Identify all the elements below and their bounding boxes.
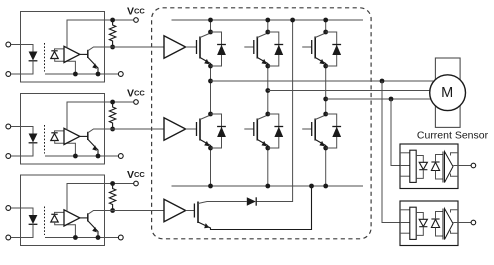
amplifier U1 bbox=[64, 46, 80, 62]
pins right CS2 bbox=[451, 210, 459, 213]
wire diode branch Q4 bbox=[211, 114, 222, 148]
wire photodiode cathode to amp bbox=[55, 131, 65, 133]
photodiode U1 bbox=[51, 50, 57, 52]
node common photodiode bbox=[73, 154, 78, 159]
isolation barrier bbox=[44, 125, 46, 154]
svg-text:VCC: VCC bbox=[127, 88, 145, 100]
photodiode U2 bbox=[51, 132, 57, 134]
node N rail col1 bbox=[208, 184, 213, 189]
pins left CS1 bbox=[400, 152, 410, 154]
resistor R1 bbox=[109, 20, 115, 47]
wire diode branch Q1 bbox=[211, 32, 222, 66]
node emitter Q6 bbox=[323, 146, 328, 151]
optocoupler U1 box bbox=[21, 12, 105, 83]
wire emitter Q5 to N rail bbox=[267, 148, 269, 186]
emitter Q7 with arrow bbox=[198, 186, 312, 230]
node common photodiode bbox=[73, 72, 78, 77]
node common photodiode bbox=[73, 235, 78, 240]
wire shunt to LED CS1 bbox=[416, 156, 423, 163]
wire collector Q3 to P rail bbox=[325, 20, 327, 32]
wire input anode to LED bbox=[11, 208, 33, 215]
node emitter Q3 bbox=[323, 64, 328, 69]
node emitter Q5 bbox=[265, 146, 270, 151]
wire output CS2 bbox=[453, 222, 471, 224]
node phase U sensor tap bbox=[380, 79, 385, 84]
node brake P rail bbox=[290, 18, 295, 23]
amplifier CS2 bbox=[445, 209, 454, 240]
wire phase V to motor bbox=[268, 90, 447, 92]
freewheel diode Q2 bbox=[274, 44, 283, 46]
amplifier CS1 bbox=[445, 152, 454, 183]
wire emitter Q6 to N rail bbox=[325, 148, 327, 186]
node common emitter bbox=[96, 235, 101, 240]
LED CS2 bbox=[419, 219, 427, 226]
brake diode D7 bbox=[247, 197, 256, 205]
svg-text:M: M bbox=[441, 85, 453, 101]
IGBT Q5 bbox=[253, 122, 255, 136]
node resistor top R2 bbox=[110, 100, 115, 105]
LED D2a bbox=[29, 134, 38, 143]
wire phase U to CS2 bbox=[382, 81, 410, 223]
IGBT Q7 brake bbox=[193, 204, 195, 218]
optocoupler U3 box bbox=[21, 175, 105, 246]
common terminal U2 bbox=[118, 154, 123, 159]
wire phase W to CS1 bbox=[391, 99, 410, 166]
node collector Q6 bbox=[323, 112, 328, 117]
wire photodiode anode to common bbox=[55, 59, 76, 75]
isolation barrier bbox=[44, 43, 46, 72]
photodiode CS1 bbox=[431, 161, 439, 163]
node phase tap col1 bbox=[208, 79, 213, 84]
node resistor top R3 bbox=[110, 181, 115, 186]
wire photodiode cathode to amp bbox=[55, 212, 65, 214]
amplifier U3 bbox=[64, 210, 80, 226]
wire collector Q7 bbox=[198, 202, 247, 204]
wire diode branch Q6 bbox=[326, 114, 337, 148]
node P rail col1 bbox=[208, 18, 213, 23]
wire gate Q4 bbox=[186, 128, 197, 130]
resistor R2 bbox=[109, 102, 115, 129]
IGBT Q3 bbox=[311, 40, 313, 54]
wire LED cathode to input bbox=[11, 143, 33, 156]
wire driver A3 to gate bbox=[186, 210, 195, 212]
wire phase W to motor bbox=[326, 98, 447, 100]
node N rail col2 bbox=[265, 184, 270, 189]
pins left CS2 bbox=[400, 209, 410, 211]
current sensor CS1 box bbox=[400, 144, 458, 189]
node emitter Q1 bbox=[208, 64, 213, 69]
motor frame bbox=[435, 58, 460, 127]
wire driver A2 to gate bbox=[186, 128, 197, 130]
resistor R3 bbox=[109, 184, 115, 211]
wire gate Q5 bbox=[244, 128, 254, 130]
output terminal CS1 bbox=[471, 163, 476, 168]
svg-text:VCC: VCC bbox=[127, 6, 145, 18]
shunt element CS2 bbox=[410, 207, 416, 239]
input terminal cathode U2 bbox=[6, 154, 11, 159]
IGBT Q6 bbox=[311, 122, 313, 136]
transistor Q2o bbox=[87, 132, 89, 140]
optocoupler U2 box bbox=[21, 94, 105, 165]
photodiode U3 bbox=[51, 213, 57, 215]
isolation barrier bbox=[44, 207, 46, 236]
node resistor top R1 bbox=[110, 18, 115, 23]
node emitter Q2 bbox=[265, 64, 270, 69]
wire input anode to LED bbox=[11, 127, 33, 134]
common terminal U3 bbox=[118, 235, 123, 240]
positive DC rail bbox=[172, 19, 364, 21]
wire diode branch Q3 bbox=[326, 32, 337, 66]
freewheel diode Q4 bbox=[217, 126, 226, 128]
transistor Q1o bbox=[87, 50, 89, 58]
emitter with arrow bbox=[88, 221, 98, 238]
common terminal U1 bbox=[118, 72, 123, 77]
node P rail col3 bbox=[323, 18, 328, 23]
current sensor CS2 box bbox=[400, 201, 458, 246]
emitter with arrow bbox=[88, 139, 98, 156]
node common emitter bbox=[96, 154, 101, 159]
node common emitter bbox=[96, 72, 101, 77]
IGBT Q1 bbox=[196, 40, 198, 54]
wire photodiode cathode to amp bbox=[55, 49, 65, 51]
common rail bbox=[45, 73, 118, 75]
input terminal anode U1 bbox=[6, 42, 11, 47]
IGBT Q4 bbox=[196, 122, 198, 136]
wire phase U to motor bbox=[211, 80, 448, 82]
common rail bbox=[45, 237, 118, 239]
node resistor bottom R3 bbox=[110, 208, 115, 213]
Vcc terminal U2 bbox=[134, 100, 139, 105]
node resistor bottom R1 bbox=[110, 45, 115, 50]
output terminal CS2 bbox=[471, 220, 476, 225]
wire diode branch Q5 bbox=[268, 114, 279, 148]
wire photodiode anode to common bbox=[55, 141, 76, 157]
LED D3a bbox=[29, 215, 38, 224]
wire Vcc rail to amp bbox=[67, 184, 134, 212]
pins right CS1 bbox=[451, 153, 459, 156]
input terminal cathode U3 bbox=[6, 235, 11, 240]
inverter module boundary (dashed) bbox=[152, 8, 372, 239]
wire diode branch Q2 bbox=[268, 32, 279, 66]
wire collector Q2 to P rail bbox=[267, 20, 269, 32]
node P rail col2 bbox=[265, 18, 270, 23]
wire LED cathode to input bbox=[11, 61, 33, 74]
driver buffer A3 bbox=[164, 199, 186, 221]
node emitter Q4 bbox=[208, 146, 213, 151]
wire phase node col2 bbox=[267, 66, 269, 114]
amplifier U2 bbox=[64, 128, 80, 144]
LED CS1 bbox=[419, 162, 427, 169]
wire brake diode to P rail bbox=[257, 20, 293, 202]
freewheel diode Q1 bbox=[217, 44, 226, 46]
shunt element CS1 bbox=[410, 150, 416, 182]
wire Vcc rail to amp bbox=[67, 102, 134, 130]
wire collector Q1 to P rail bbox=[210, 20, 212, 32]
input terminal cathode U1 bbox=[6, 72, 11, 77]
wire photodiode anode to common bbox=[55, 222, 76, 238]
freewheel diode Q3 bbox=[332, 44, 341, 46]
driver buffer A2 bbox=[164, 118, 186, 140]
wire gate Q2 bbox=[244, 46, 254, 48]
wire gate Q3 bbox=[302, 46, 312, 48]
node phase W sensor tap bbox=[389, 97, 394, 102]
Vcc terminal U3 bbox=[134, 181, 139, 186]
emitter with arrow bbox=[88, 57, 98, 74]
motor M bbox=[430, 75, 466, 111]
node resistor bottom R2 bbox=[110, 127, 115, 132]
wire shunt to LED CS2 bbox=[416, 213, 423, 220]
node N rail col3 bbox=[323, 184, 328, 189]
node collector Q2 bbox=[265, 30, 270, 35]
node brake return N rail bbox=[309, 184, 314, 189]
LED D1a bbox=[29, 52, 38, 61]
wire collector output bbox=[88, 129, 164, 133]
transistor Q3o bbox=[87, 213, 89, 221]
node collector Q1 bbox=[208, 30, 213, 35]
IGBT Q2 bbox=[253, 40, 255, 54]
wire gate Q1 bbox=[186, 46, 197, 48]
wire collector output bbox=[88, 47, 164, 51]
wire input anode to LED bbox=[11, 45, 33, 52]
node phase tap col3 bbox=[323, 97, 328, 102]
input terminal anode U2 bbox=[6, 124, 11, 129]
wire emitter Q4 to N rail bbox=[210, 148, 212, 186]
svg-text:VCC: VCC bbox=[127, 169, 145, 181]
node collector Q4 bbox=[208, 112, 213, 117]
wire gate Q6 bbox=[302, 128, 312, 130]
common rail bbox=[45, 155, 118, 157]
wire phase node col3 bbox=[325, 66, 327, 114]
photodiode CS2 bbox=[431, 218, 439, 220]
node phase tap col2 bbox=[265, 88, 270, 93]
node collector Q5 bbox=[265, 112, 270, 117]
wire LED cathode to input bbox=[11, 224, 33, 237]
input terminal anode U3 bbox=[6, 206, 11, 211]
wire output CS1 bbox=[453, 165, 471, 167]
wire Vcc rail to amp bbox=[67, 20, 134, 48]
negative DC rail bbox=[172, 185, 364, 187]
wire phase node col1 bbox=[210, 66, 212, 114]
freewheel diode Q5 bbox=[274, 126, 283, 128]
svg-text:Current Sensor: Current Sensor bbox=[417, 130, 489, 142]
wire driver A1 to gate bbox=[186, 46, 197, 48]
freewheel diode Q6 bbox=[332, 126, 341, 128]
driver buffer A1 bbox=[164, 36, 186, 58]
wire collector output bbox=[88, 211, 164, 215]
Vcc terminal U1 bbox=[134, 18, 139, 23]
node collector Q3 bbox=[323, 30, 328, 35]
